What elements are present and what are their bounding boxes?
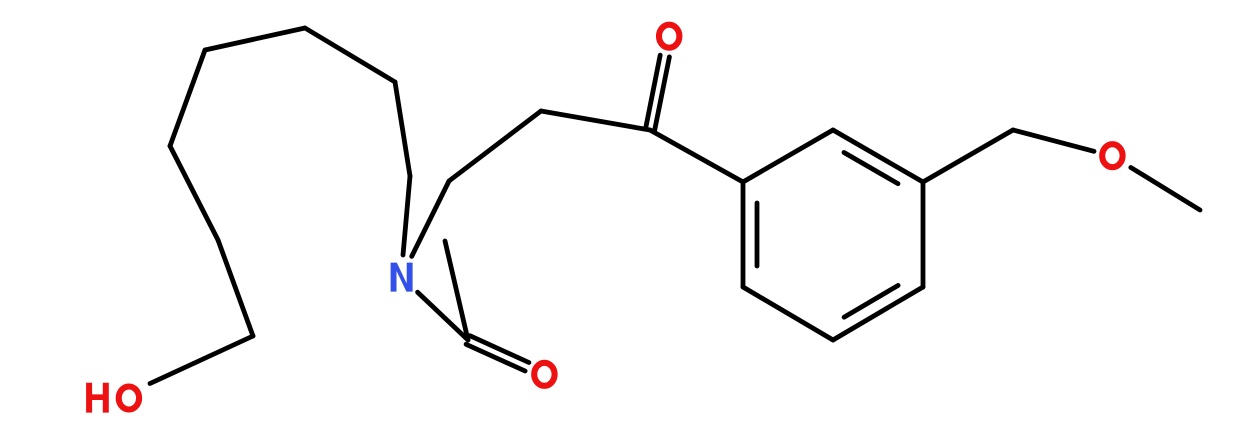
benzene ring edge P5-P6 <box>743 287 833 340</box>
wire N-A amide <box>418 292 468 340</box>
wire M-O methoxy <box>1013 130 1094 151</box>
wire C6-C7 <box>395 82 410 176</box>
benzene ring edge P4-P5 <box>833 287 923 340</box>
label N amide nitrogen <box>391 263 413 292</box>
wire HO-C1 <box>150 336 253 384</box>
wire K-P1 <box>650 130 743 182</box>
benzene inner aromatic line bottom-right <box>844 285 898 317</box>
wire K=O ketone double bond <box>655 57 670 131</box>
wire T-V2 <box>449 111 541 181</box>
benzene inner aromatic line left <box>755 203 760 266</box>
wire O-CH3 methyl <box>1131 168 1200 211</box>
benzene inner aromatic line top-right <box>844 153 898 184</box>
wire A-CH3 methyl branch <box>445 241 468 340</box>
label HO hydroxyl: letter H <box>86 383 109 413</box>
benzene ring edge P3-P4 <box>921 182 926 287</box>
label O ketone oxygen <box>659 25 679 48</box>
benzene ring edge P6-P1 <box>741 182 746 287</box>
wire V2-K <box>541 111 650 130</box>
wire P3-M <box>923 130 1013 182</box>
label O amide oxygen <box>534 363 554 386</box>
label O methoxy oxygen <box>1102 144 1122 167</box>
wire C7-N <box>403 176 410 255</box>
wire C2-C3 <box>170 146 218 240</box>
benzene ring edge P2-P3 <box>833 130 923 182</box>
wire N-T chain <box>412 181 449 256</box>
label HO hydroxyl: letter O <box>119 387 139 410</box>
wire A=O amide double bond <box>466 344 525 371</box>
wire C4-C5 <box>205 28 305 50</box>
wire C5-C6 <box>305 28 395 82</box>
wire C3-C4 <box>170 50 205 146</box>
benzene ring edge P1-P2 <box>743 130 833 182</box>
wire C1-C2 <box>218 240 253 336</box>
